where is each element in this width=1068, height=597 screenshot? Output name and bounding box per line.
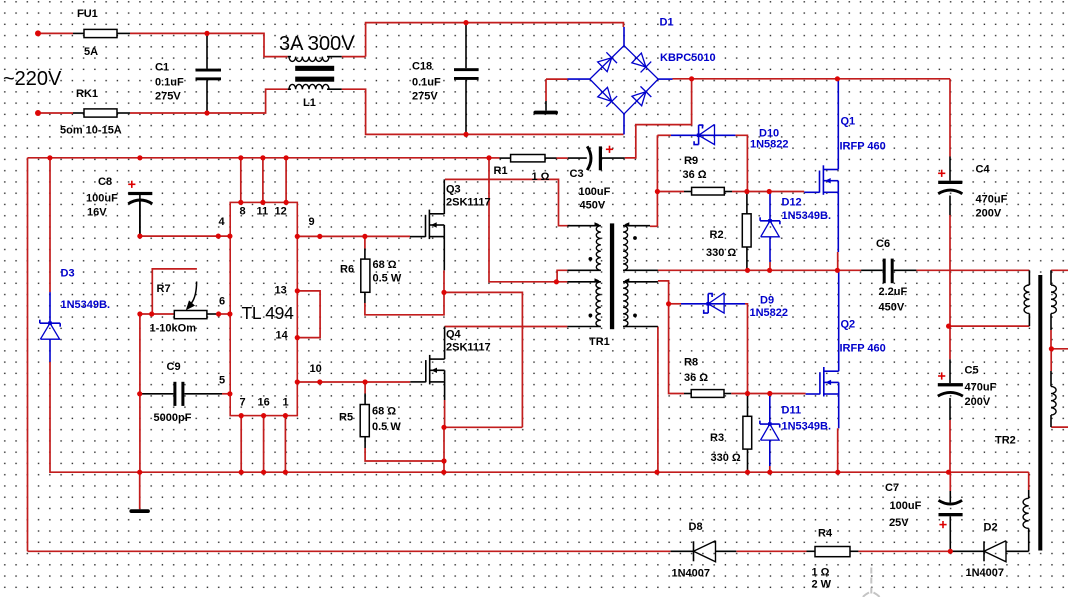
svg-text:IRFP 460: IRFP 460 [840,343,886,355]
svg-text:9: 9 [309,216,315,228]
svg-text:C5: C5 [965,365,979,377]
svg-text:1N5349B.: 1N5349B. [782,421,832,433]
svg-text:330 Ω: 330 Ω [711,452,741,464]
svg-text:1 Ω: 1 Ω [812,567,830,579]
svg-text:275V: 275V [412,91,438,103]
svg-text:C1: C1 [155,62,169,74]
svg-text:100uF: 100uF [86,193,118,205]
svg-text:R1: R1 [494,165,508,177]
svg-text:D2: D2 [984,522,998,534]
svg-text:14: 14 [276,330,289,342]
svg-text:5: 5 [219,375,225,387]
svg-text:2 W: 2 W [812,579,832,591]
svg-text:C8: C8 [98,176,112,188]
svg-text:10: 10 [310,363,322,375]
svg-text:450V: 450V [580,200,606,212]
svg-text:5om 10-15A: 5om 10-15A [60,125,122,137]
svg-text:36 Ω: 36 Ω [684,372,708,384]
svg-text:5A: 5A [84,46,98,58]
svg-text:0.5 W: 0.5 W [373,273,402,285]
svg-text:~220V: ~220V [3,68,62,90]
svg-text:200V: 200V [965,396,991,408]
svg-text:R5: R5 [339,412,353,424]
svg-text:R4: R4 [818,528,833,540]
svg-text:25V: 25V [889,517,909,529]
svg-text:12: 12 [275,206,287,218]
svg-text:0.5 W: 0.5 W [372,421,401,433]
svg-text:C3: C3 [570,168,584,180]
svg-text:Q3: Q3 [446,184,461,196]
svg-text:TR2: TR2 [995,435,1016,447]
svg-text:D1: D1 [660,17,674,29]
svg-text:C7: C7 [885,482,899,494]
svg-text:1N5349B.: 1N5349B. [61,299,111,311]
svg-text:36 Ω: 36 Ω [683,169,707,181]
svg-text:1N5822: 1N5822 [750,307,789,319]
svg-text:FU1: FU1 [77,8,98,20]
svg-text:C6: C6 [876,238,890,250]
svg-text:L1: L1 [303,97,316,109]
svg-text:450V: 450V [879,302,905,314]
svg-text:8: 8 [240,206,246,218]
svg-text:0.1uF: 0.1uF [155,77,184,89]
svg-text:R2: R2 [710,229,724,241]
svg-text:13: 13 [275,285,287,297]
svg-text:2.2uF: 2.2uF [879,286,908,298]
svg-text:1 Ω: 1 Ω [532,171,550,183]
svg-text:D8: D8 [689,521,703,533]
svg-text:5000pF: 5000pF [154,412,192,424]
svg-text:3A 300V: 3A 300V [279,33,355,55]
svg-text:TR1: TR1 [589,336,610,348]
svg-text:KBPC5010: KBPC5010 [660,52,716,64]
svg-text:100uF: 100uF [890,500,922,512]
svg-text:Q4: Q4 [446,329,462,341]
svg-text:Q1: Q1 [841,116,856,128]
svg-text:0.1uF: 0.1uF [412,77,441,89]
svg-text:RK1: RK1 [76,88,98,100]
svg-text:200V: 200V [976,208,1002,220]
svg-text:R6: R6 [340,264,354,276]
svg-text:IRFP 460: IRFP 460 [840,141,886,153]
svg-text:68 Ω: 68 Ω [372,406,396,418]
svg-text:D12: D12 [782,197,802,209]
svg-text:16V: 16V [87,207,107,219]
svg-text:Q2: Q2 [841,319,856,331]
svg-text:6: 6 [219,296,225,308]
svg-text:R8: R8 [684,357,698,369]
svg-text:C18: C18 [412,61,432,73]
svg-text:16: 16 [258,397,270,409]
svg-text:1N5822: 1N5822 [750,139,789,151]
svg-text:4: 4 [219,216,226,228]
svg-text:D3: D3 [61,268,75,280]
svg-text:R3: R3 [710,432,724,444]
svg-text:470uF: 470uF [965,382,997,394]
svg-text:7: 7 [240,397,246,409]
svg-text:100uF: 100uF [579,186,611,198]
svg-text:1-10kOm: 1-10kOm [150,323,197,335]
svg-text:11: 11 [257,206,269,218]
svg-text:330 Ω: 330 Ω [706,247,736,259]
svg-text:R7: R7 [157,283,171,295]
svg-text:C9: C9 [167,361,181,373]
svg-text:TL 494: TL 494 [242,303,295,323]
svg-text:1N4007: 1N4007 [966,567,1005,579]
svg-text:D11: D11 [782,405,802,417]
svg-text:1N5349B.: 1N5349B. [782,210,832,222]
svg-text:1N4007: 1N4007 [672,568,711,580]
svg-text:470uF: 470uF [976,194,1008,206]
svg-text:D9: D9 [760,295,774,307]
svg-text:275V: 275V [155,91,181,103]
svg-text:C4: C4 [976,164,991,176]
svg-text:2SK1117: 2SK1117 [446,197,491,209]
svg-text:2SK1117: 2SK1117 [446,342,491,354]
svg-text:68 Ω: 68 Ω [373,259,397,271]
svg-text:1: 1 [283,397,289,409]
svg-text:R9: R9 [684,155,698,167]
